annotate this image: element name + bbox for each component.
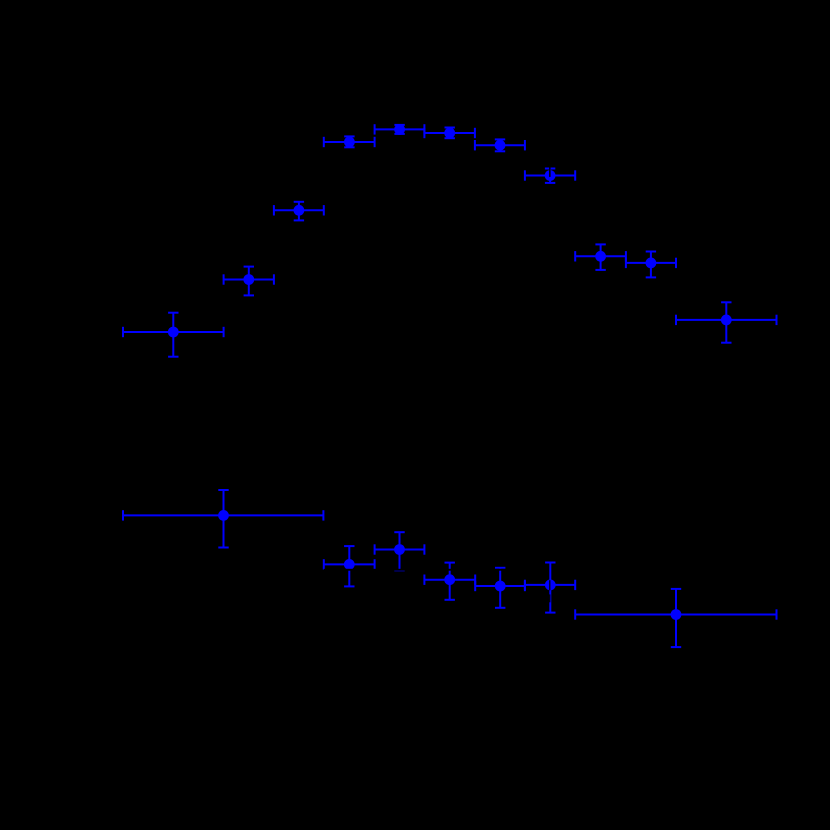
data point Q5 (bottom panel) error bars and marker	[475, 568, 525, 608]
data point P9 (top panel) error bars and marker	[575, 244, 626, 270]
black overlay line across bottom panel at y=569.7	[324, 569, 525, 571]
data point P6 (top panel) error bars and marker	[424, 128, 475, 139]
black overlay notch through Q6 lower error line	[549, 594, 550, 602]
data point Q7 (bottom panel) error bars and marker	[575, 589, 776, 647]
data point P7 (top panel) error bars and marker	[475, 139, 525, 151]
data point P1 (top panel) error bars and marker	[123, 313, 224, 357]
data point Q1 (bottom panel) error bars and marker	[123, 490, 323, 548]
data point Q2 (bottom panel) error bars and marker	[324, 546, 375, 586]
data point P10 (top panel) error bars and marker	[626, 252, 676, 278]
data point Q6 (bottom panel) error bars and marker	[525, 563, 575, 613]
black overlay notch through P8 marker and cap	[549, 167, 551, 177]
data point Q3 (bottom panel) error bars and marker	[375, 532, 425, 570]
data point P4 (top panel) error bars and marker	[324, 136, 375, 147]
data point P3 (top panel) error bars and marker	[274, 202, 324, 221]
data point P8 (top panel) error bars and marker	[525, 169, 575, 183]
data point P5 (top panel) error bars and marker	[375, 124, 425, 135]
data point Q4 (bottom panel) error bars and marker	[424, 563, 475, 600]
black overlay notch through Q6 marker	[549, 580, 550, 590]
data point P11 (top panel) error bars and marker	[676, 302, 777, 342]
data point P2 (top panel) error bars and marker	[224, 267, 274, 296]
